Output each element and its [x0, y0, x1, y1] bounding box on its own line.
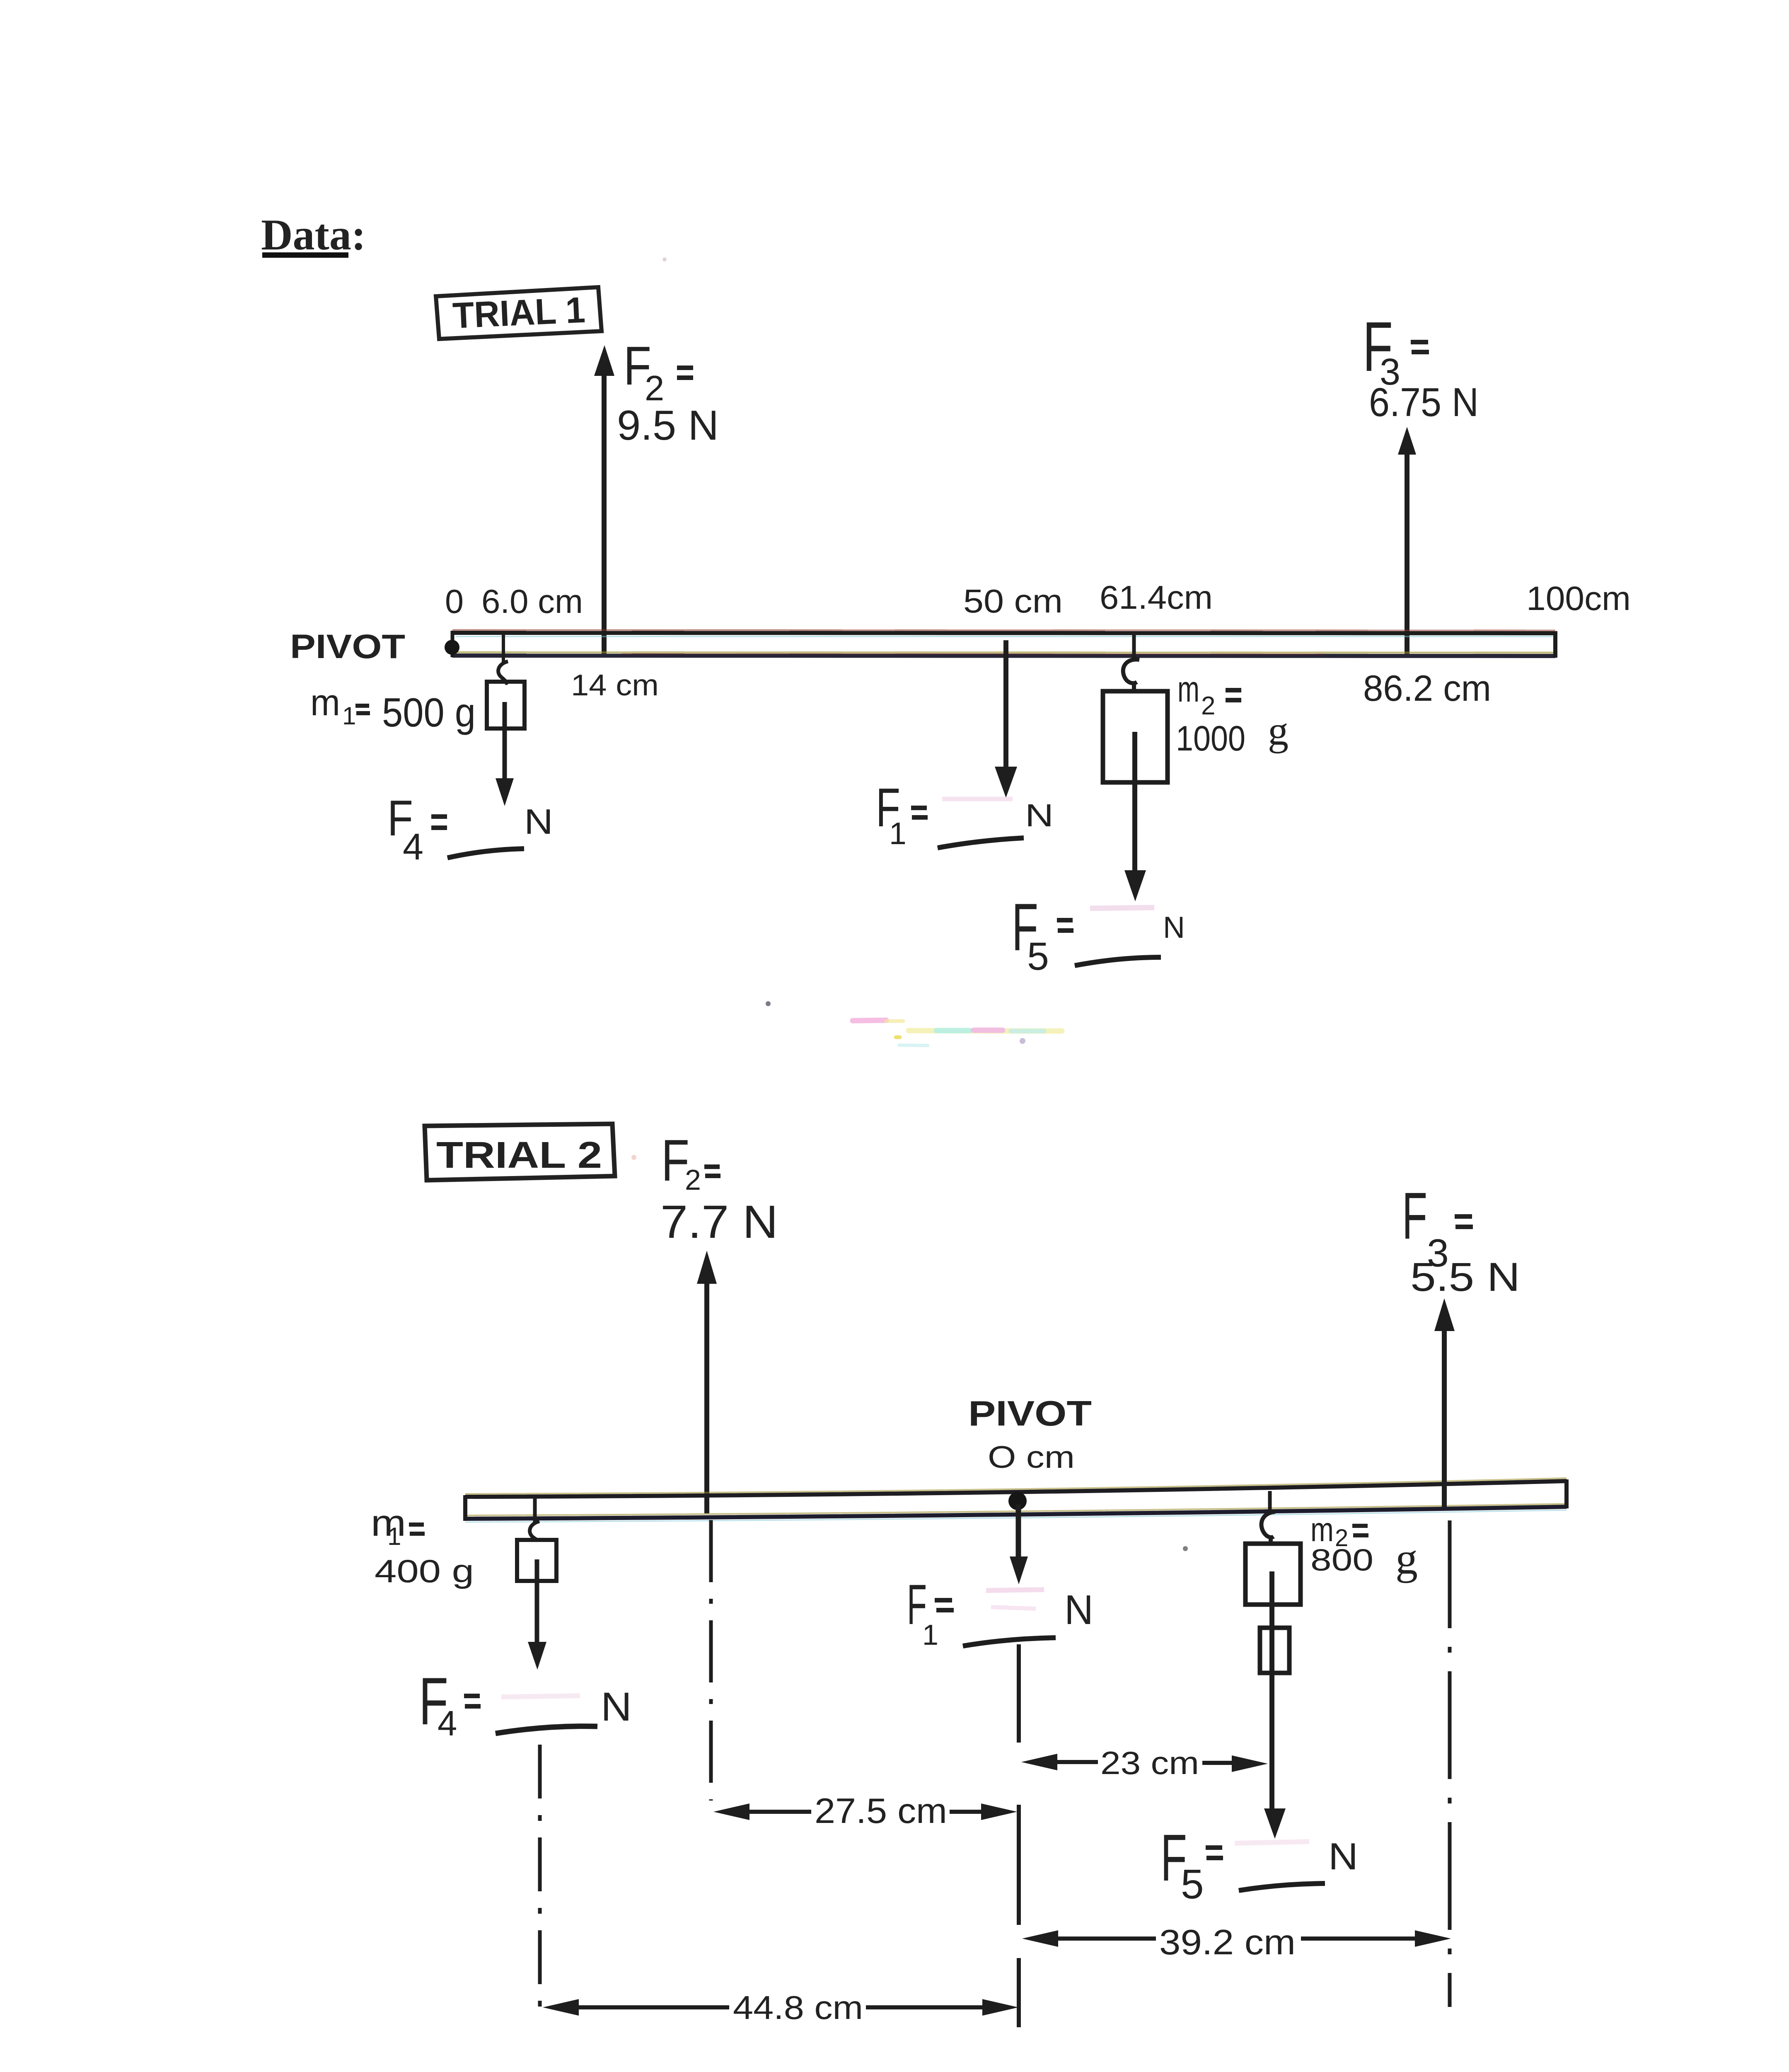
svg-text:1: 1 [889, 816, 907, 851]
svg-text:N: N [1064, 1587, 1093, 1633]
svg-text:0: 0 [445, 583, 464, 620]
svg-text:2: 2 [1201, 692, 1215, 720]
small weight box below m2 trial 2 [1260, 1628, 1289, 1673]
svg-text:5: 5 [1027, 934, 1049, 978]
force arrow F2 trial 2 [697, 1251, 717, 1513]
dimension 44.8 cm [543, 1989, 1018, 2026]
label m2 = 1000 g [1176, 668, 1289, 758]
beam trial 2 [465, 1478, 1567, 1522]
hook m2 trial 2 [1262, 1512, 1275, 1544]
scan smudge band between trials [766, 1001, 1062, 1046]
svg-text:PIVOT: PIVOT [968, 1394, 1092, 1433]
pivot dot trial 1 [445, 640, 459, 655]
svg-text:F: F [1402, 1179, 1427, 1253]
svg-text:9.5 N: 9.5 N [617, 402, 719, 449]
dimension 27.5 cm [713, 1791, 1017, 1831]
mass box m2 trial 2 [1245, 1544, 1301, 1605]
force arrow F2 trial 1 [594, 345, 614, 656]
label F3 = trial 2 [1402, 1179, 1473, 1275]
svg-text:6.0 cm: 6.0 cm [481, 583, 583, 620]
svg-text:N: N [524, 802, 553, 842]
svg-text:6.75 N: 6.75 N [1369, 380, 1479, 425]
svg-text:1: 1 [922, 1619, 938, 1651]
svg-text:23 cm: 23 cm [1100, 1745, 1199, 1781]
svg-text:50 cm: 50 cm [963, 583, 1063, 620]
svg-text:N: N [1328, 1836, 1358, 1878]
force arrow F3 trial 2 [1434, 1298, 1455, 1508]
svg-text:TRIAL 1: TRIAL 1 [452, 289, 586, 336]
label F2 = trial 2 [661, 1128, 720, 1196]
svg-text:TRIAL 2: TRIAL 2 [436, 1135, 602, 1176]
svg-text:61.4cm: 61.4cm [1100, 579, 1213, 616]
label F4 = ___ N trial 1 [387, 790, 553, 868]
svg-text:27.5 cm: 27.5 cm [815, 1791, 947, 1831]
weight arrow F5 trial 1 [1124, 732, 1146, 901]
svg-text:44.8 cm: 44.8 cm [733, 1989, 863, 2026]
svg-text:Data:: Data: [261, 211, 366, 259]
title Data: [261, 211, 366, 259]
label F2 = [624, 335, 693, 408]
mass box m1 trial 2 [517, 1540, 556, 1581]
dimension 23 cm [1021, 1745, 1268, 1781]
string m2 trial 2 [1268, 1491, 1272, 1513]
label m2 = 800 g trial 2 [1310, 1511, 1418, 1583]
string m1 trial 2 [533, 1498, 537, 1522]
svg-text:400 g: 400 g [375, 1553, 474, 1589]
svg-text:N: N [1025, 798, 1054, 833]
svg-text:m: m [1177, 668, 1199, 709]
svg-text:1: 1 [342, 702, 356, 730]
svg-text:39.2 cm: 39.2 cm [1159, 1923, 1296, 1962]
hook m1 trial 1 [498, 661, 508, 683]
label F4 = ___ N trial 2 [419, 1664, 632, 1743]
svg-text:500 g: 500 g [382, 690, 476, 735]
svg-text:N: N [1163, 911, 1185, 944]
weight arrow F4 trial 1 [496, 702, 514, 806]
weight arrow F5 trial 2 (shaft) [1269, 1571, 1274, 1809]
svg-text:100cm: 100cm [1526, 580, 1631, 617]
svg-text:86.2 cm: 86.2 cm [1363, 668, 1491, 709]
svg-text:1: 1 [387, 1523, 401, 1550]
scan pink speck trial 2 [631, 1155, 636, 1160]
force arrow F1 trial 2 [1010, 1504, 1028, 1584]
svg-text:14 cm: 14 cm [571, 669, 659, 702]
svg-text:PIVOT: PIVOT [290, 628, 405, 666]
weight arrow F4 trial 2 [528, 1559, 546, 1670]
extension line below pivot trial 2 [1017, 1644, 1021, 2027]
svg-text:2: 2 [685, 1164, 701, 1196]
force arrow F3 trial 1 [1398, 427, 1416, 656]
svg-text:800: 800 [1310, 1543, 1373, 1577]
dimension 39.2 cm [1022, 1923, 1451, 1962]
svg-text:1000: 1000 [1176, 719, 1245, 758]
svg-text:g: g [1395, 1534, 1418, 1583]
label m1 = 500 g [310, 682, 476, 735]
scan speck above trial 1 F2 label [662, 257, 667, 261]
label F5 = ___ N trial 1 [1012, 890, 1185, 978]
svg-text:7.7 N: 7.7 N [660, 1196, 778, 1248]
label F1 = ___ N trial 2 [907, 1573, 1093, 1651]
label F5 = ___ N trial 2 [1160, 1820, 1358, 1907]
label F3 = [1363, 307, 1429, 393]
beam trial 1 [452, 630, 1555, 658]
string m2 trial 1 [1132, 632, 1136, 659]
extension line below F3 trial 2 [1448, 1520, 1452, 2007]
mass box m1 trial 1 [487, 682, 525, 729]
svg-text:5.5 N: 5.5 N [1410, 1254, 1520, 1300]
weight arrowhead F5 trial 2 [1264, 1808, 1286, 1839]
svg-text:m: m [310, 682, 340, 724]
mass box m2 trial 1 [1103, 691, 1168, 782]
hook m2 trial 1 [1123, 659, 1139, 691]
scan speck near m2 trial 2 [1183, 1546, 1188, 1551]
string at 6 cm trial 1 [502, 632, 505, 662]
svg-text:4: 4 [438, 1704, 457, 1743]
hook m1 trial 2 [530, 1521, 539, 1540]
svg-text:N: N [601, 1684, 632, 1729]
TRIAL 1 label box [436, 287, 602, 339]
label F1 = ___ N trial 1 [876, 777, 1054, 851]
TRIAL 2 label box [425, 1124, 615, 1180]
extension line below F2 trial 2 [709, 1520, 713, 1801]
svg-text:5: 5 [1181, 1861, 1204, 1907]
force arrow F1 trial 1 [995, 640, 1017, 798]
svg-text:4: 4 [403, 826, 423, 868]
extension line below F4 trial 2 [538, 1745, 542, 2021]
svg-text:O cm: O cm [988, 1440, 1075, 1474]
pivot dot trial 2 [1008, 1492, 1027, 1510]
label m1 = 400 g trial 2 [371, 1503, 474, 1589]
svg-text:g: g [1268, 708, 1289, 754]
